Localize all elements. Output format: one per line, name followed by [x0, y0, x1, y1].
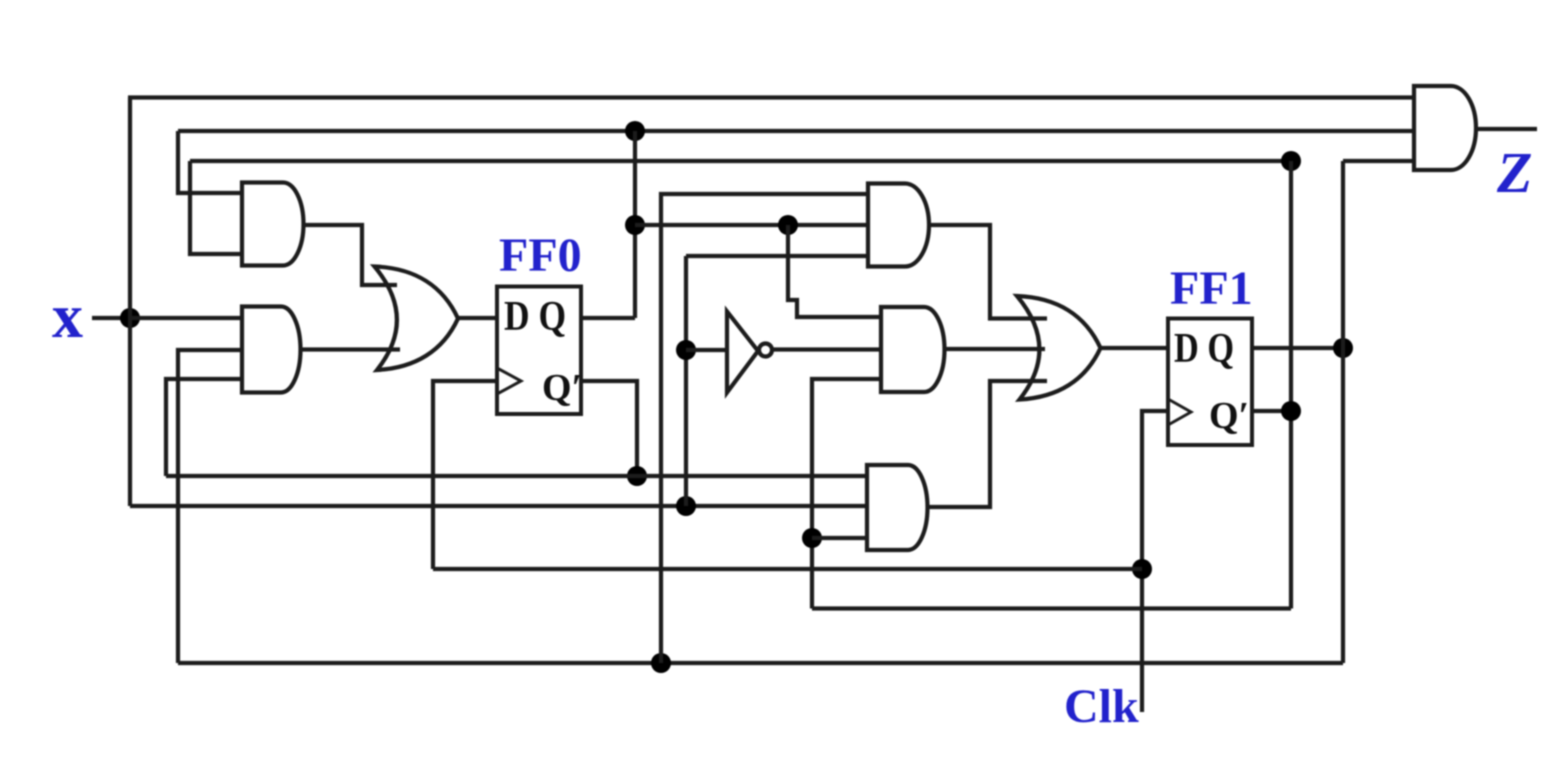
wire FF1 Q' output — [1252, 409, 1291, 413]
wire X top line to AND6 — [128, 95, 1414, 99]
svg-text:Clk: Clk — [1064, 680, 1139, 733]
flip-flop FF0 box — [497, 287, 581, 415]
wire Q1' to AND5 input 2 — [812, 536, 867, 540]
flip-flop FF1 clock triangle — [1168, 399, 1191, 425]
wire Q1 bottom line — [178, 661, 1343, 665]
svg-text:D Q: D Q — [504, 294, 566, 340]
wire Q1 right vertical — [1341, 161, 1345, 663]
wire Q0' horizontal to AND5 input 1 — [166, 474, 867, 478]
junction Clk — [1132, 559, 1152, 579]
wire AND1 output elbow to OR1 input 1 — [303, 225, 397, 285]
wire OR2 output to FF1 D — [1100, 346, 1168, 350]
junction Q1 at FF1 — [1333, 338, 1353, 358]
wire Clk to FF0 clock — [433, 381, 497, 569]
and-gate AND6 output Z — [1414, 86, 1476, 170]
svg-text:FF0: FF0 — [499, 229, 582, 282]
svg-text:FF1: FF1 — [1170, 262, 1253, 315]
wire AND4 output to OR2 input 2 — [944, 347, 1045, 351]
junction Q0 branch — [625, 215, 645, 235]
and-gate AND1 — [242, 183, 303, 266]
wire FF0 Q output — [581, 316, 635, 320]
wire Clk riser to FF1 clock — [1142, 411, 1168, 712]
wire Q1' bottom horizontal — [812, 606, 1291, 610]
junction X — [120, 308, 140, 328]
wire Q0 to AND3 input 2 — [635, 223, 868, 227]
wire X left vertical — [128, 98, 132, 507]
wire AND3 output elbow to OR2 input 1 — [929, 225, 1047, 319]
svg-text:Z: Z — [1496, 140, 1532, 205]
wire FF1 Q output — [1252, 346, 1343, 350]
wire Q1' left drop to AND1 input 2 — [190, 161, 242, 254]
wire Q0 riser vertical — [633, 131, 637, 318]
svg-text:x: x — [52, 283, 83, 351]
wire Q0' left riser to AND2 input 3 — [166, 379, 242, 476]
junction X bottom riser — [676, 496, 696, 516]
or-gate OR1 — [375, 267, 459, 371]
wire X middle riser vertical — [684, 256, 688, 506]
and-gate AND3 — [868, 184, 929, 267]
inverter U1 bubble — [759, 344, 772, 357]
wire Q0 line2 horizontal to AND6 input 2 — [178, 129, 1414, 133]
wire X to inverter U1 input — [686, 348, 727, 352]
junction Q1' at FF1 — [1281, 401, 1301, 421]
svg-text:D Q: D Q — [1174, 326, 1234, 372]
wire AND6 output Z — [1476, 127, 1537, 131]
wire Q1' line3 horizontal — [190, 159, 1291, 163]
wire Clk horizontal line — [433, 567, 1142, 571]
wire AND5 output elbow to OR2 input 3 — [927, 381, 1047, 507]
wire Q0 jog down to AND4 input 1 — [788, 225, 881, 317]
wire Q1' riser to AND4 input 3 — [812, 379, 881, 609]
inverter U1 triangle — [727, 312, 758, 393]
wire X to AND3 input 3 — [686, 254, 868, 258]
wire Q1 to AND6 input 3 — [1343, 159, 1414, 163]
junction X at inverter input — [676, 340, 696, 360]
flip-flop FF1 box — [1168, 319, 1252, 446]
wire inverter output to AND4 input 2 — [772, 347, 881, 351]
junction Q1' at AND5 branch — [802, 528, 822, 548]
svg-text:Q′: Q′ — [542, 367, 582, 409]
wire Q1 middle riser to AND3 input 1 — [661, 194, 868, 663]
junction Q0 at AND3 branch — [778, 215, 798, 235]
wire AND2 output to OR1 input 2 — [300, 347, 400, 351]
wire OR1 output to FF0 D — [458, 316, 497, 320]
wire X to AND2 input 1 — [130, 316, 242, 320]
wire Q0 left drop — [178, 131, 242, 193]
wire X bottom route horizontal — [130, 504, 867, 508]
junction Q0 riser top — [625, 121, 645, 141]
and-gate AND5 — [867, 465, 928, 550]
flip-flop FF0 clock triangle — [497, 368, 521, 394]
or-gate OR2 — [1017, 296, 1101, 400]
junction Q1' line3 right end — [1281, 151, 1301, 171]
svg-text:Q′: Q′ — [1209, 395, 1249, 437]
wire Q1' right vertical — [1289, 161, 1293, 609]
and-gate AND4 — [881, 307, 945, 392]
wire Q1 left riser to AND2 input 2 — [178, 350, 242, 663]
junction Q0' drop — [627, 466, 647, 486]
wire FF0 Q' output — [581, 381, 637, 476]
and-gate AND2 — [242, 307, 301, 393]
wire X input stub — [92, 316, 130, 320]
junction Q1 bottom middle — [651, 653, 671, 673]
